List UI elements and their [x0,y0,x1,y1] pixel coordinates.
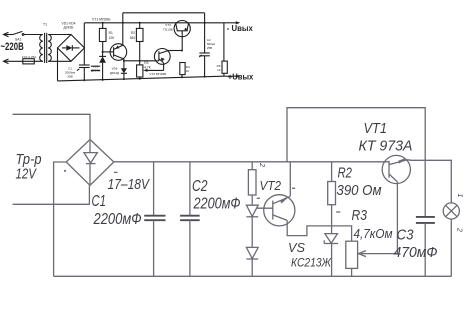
label VD1-VD4 Д242Б [62,21,76,29]
svg-text:С2: С2 [192,178,208,195]
svg-text:2200мФ: 2200мФ [193,195,241,212]
resistor R3 (potentiometer) [346,241,358,276]
svg-text:4,7кОм: 4,7кОм [354,226,393,241]
label VT3 П213Б [163,23,172,31]
wire VT2 collector row [169,50,184,52]
label R3 4,7К [144,61,151,70]
switch SA1 [13,31,43,35]
wire VT2 emitter up to rail [289,162,291,197]
resistor R1 [99,22,106,52]
svg-text:T1: T1 [43,23,47,27]
wire secondary top to bridge [48,34,71,36]
wire VT1 collector to rails [122,13,124,46]
svg-text:2200мФ: 2200мФ [93,211,142,228]
svg-text:VD1-VD4: VD1-VD4 [62,21,76,25]
diode VD6 (pointing down) [121,61,127,80]
svg-text:VT2 МП26Б: VT2 МП26Б [149,72,166,76]
wire VT2 collector staircase to R3 [287,220,351,241]
label R5 1К [217,64,221,72]
label VD6 Д814Д [110,67,119,75]
svg-text:470мФ: 470мФ [394,245,438,261]
diode D2 [246,247,258,276]
svg-text:4,7К: 4,7К [144,65,151,69]
capacitor C2 [180,162,200,277]
svg-text:+Uвых: +Uвых [228,72,254,82]
svg-text:R3: R3 [144,61,148,65]
transistor VT2 [257,195,295,226]
diode inside bridge [84,141,97,184]
node polarity marks [64,170,118,173]
diode VD5 (zener, pointing up) [99,52,106,81]
svg-text:КТ 973А: КТ 973А [359,138,413,154]
fuse FU1 [23,59,43,64]
svg-text:С1: С1 [92,193,107,210]
svg-text:С3: С3 [397,228,414,244]
wire bridge right vertex up to plus rail [83,23,85,48]
wire transformer bottom lead [13,185,90,204]
label R2 360 [130,31,136,40]
wire bottom return rail [54,275,452,277]
wire output minus with arrow [224,21,240,24]
svg-text:R3: R3 [352,208,368,224]
svg-text:2: 2 [456,227,463,232]
svg-text:~220В: ~220В [1,41,24,53]
zener VS [324,234,338,277]
wire upper bypass rail [287,108,425,217]
wire bridge left vertex to left drop [54,162,67,276]
pin tick R2 [336,211,340,213]
svg-text:VT1: VT1 [364,121,388,137]
svg-text:2: 2 [258,162,265,167]
svg-text:12К: 12К [109,36,115,40]
node VT1 emitter [123,59,125,62]
wire R3 wiper arrow [143,69,163,72]
wire top plus rail [84,22,224,24]
svg-text:КС213Ж: КС213Ж [291,256,332,270]
svg-text:1К: 1К [186,69,190,73]
wire secondary bottom to bridge [48,60,71,62]
svg-text:12V: 12V [16,166,38,182]
bridge rectifier (diamond) [66,140,114,186]
resistor (VT2 collector feed) [248,162,256,205]
svg-text:VS: VS [288,240,305,255]
capacitor C2 [199,23,210,78]
transistor VT1 (МП26Б) [103,44,127,61]
capacitor C1 [144,162,165,277]
pin tick VT2 emitter [292,187,295,189]
capacitor C1 [77,48,90,81]
svg-text:П213Б: П213Б [163,27,172,31]
wire mains bottom lead with arrow [4,59,23,64]
svg-text:R1: R1 [109,31,113,35]
resistor R2 (360) [136,22,143,62]
resistor R3 (4,7К potentiometer) [137,61,143,80]
wire transformer top lead [13,114,90,139]
svg-text:Д242Б: Д242Б [64,26,74,30]
svg-text:1К: 1К [217,68,221,72]
label Тр-р 12V [16,152,42,183]
resistor R4 (1К) [180,63,185,79]
svg-text:VT1 МП26Б: VT1 МП26Б [92,18,111,22]
svg-text:VT2: VT2 [260,178,282,193]
pin tick [257,197,260,199]
svg-text:25В: 25В [207,46,212,50]
transistor VT3 (П213Б) [174,21,190,51]
svg-text:R2: R2 [338,166,353,182]
transistor VT2 (МП26Б) [154,49,170,71]
transistor VT1 [382,155,410,253]
transformer T1 [40,33,52,63]
wire R3 wiper arrow from VT1 [358,251,397,257]
diode D1 [246,205,258,247]
capacitor C3 [416,217,435,276]
label C2 500мк 25В [207,38,216,50]
svg-text:Д814Д: Д814Д [110,71,119,75]
svg-text:390 Ом: 390 Ом [337,183,382,199]
bridge rectifier VD1-VD4 [58,35,85,62]
label VD5 Д220Б (struck out) [91,64,100,72]
svg-text:- Uвых: - Uвых [227,23,253,33]
wire mains top lead with arrow [4,32,14,37]
svg-text:FU1 0,25A: FU1 0,25A [22,55,36,59]
wire main dc rail [114,161,389,163]
label C1 2000мк 25В [65,66,76,78]
wire bridge left vertex down to minus rail [57,48,59,81]
node base VT1 [102,51,104,53]
wire emitter row [124,60,159,62]
svg-text:25В: 25В [67,74,72,78]
wire output plus with arrow [224,75,240,78]
wire VT1 emitter to lamp branch [408,160,452,203]
svg-text:360: 360 [130,36,136,40]
lamp HL [443,203,459,276]
svg-text:R2: R2 [131,31,135,35]
resistor R2 [328,162,336,235]
label R1 12К [109,31,115,40]
wire upper link [123,13,206,24]
resistor R5 (1К) [222,23,227,76]
wire bottom minus rail (sloped) [58,76,224,81]
svg-text:VT3: VT3 [165,23,171,27]
svg-text:17–18V: 17–18V [108,177,151,193]
label R4 1К [186,65,190,73]
svg-text:1: 1 [456,194,463,198]
